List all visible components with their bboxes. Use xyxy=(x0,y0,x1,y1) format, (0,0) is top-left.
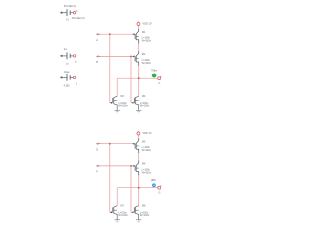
svg-text:1u: 1u xyxy=(64,47,68,51)
svg-text:W=100n: W=100n xyxy=(140,104,150,107)
svg-text:C: C xyxy=(158,81,160,85)
svg-text:W=100n: W=100n xyxy=(142,149,152,152)
svg-text:M6: M6 xyxy=(142,163,146,166)
svg-text:[8B]: [8B] xyxy=(151,179,156,182)
svg-text:D: D xyxy=(96,147,98,151)
svg-text:W=100n: W=100n xyxy=(142,40,152,43)
svg-text:W=100n: W=100n xyxy=(142,171,152,174)
svg-text:G: G xyxy=(158,191,160,195)
svg-text:M7: M7 xyxy=(120,205,124,208)
svg-text:M8: M8 xyxy=(142,205,146,208)
svg-text:VDD 1V: VDD 1V xyxy=(142,21,152,25)
svg-text:M3: M3 xyxy=(120,95,124,98)
svg-text:W=100n: W=100n xyxy=(118,214,128,217)
svg-text:M2: M2 xyxy=(142,53,146,56)
svg-text:W=100n: W=100n xyxy=(140,214,150,217)
svg-text:M5: M5 xyxy=(142,141,146,144)
svg-text:W=100n: W=100n xyxy=(118,104,128,107)
svg-text:4.305: 4.305 xyxy=(64,84,71,87)
svg-text:B: B xyxy=(96,60,98,64)
svg-text:PULSE(1 0): PULSE(1 0) xyxy=(72,17,85,20)
svg-text:A: A xyxy=(96,38,98,42)
svg-text:VDD 1V: VDD 1V xyxy=(142,131,152,135)
svg-text:Data: Data xyxy=(64,71,70,74)
svg-text:W=100n: W=100n xyxy=(142,62,152,65)
svg-text:M4: M4 xyxy=(142,95,146,98)
svg-text:M1: M1 xyxy=(142,31,146,34)
svg-text:J: J xyxy=(76,83,77,85)
svg-text:PULSE(0 1): PULSE(0 1) xyxy=(64,6,76,8)
svg-text:768m: 768m xyxy=(151,69,157,72)
